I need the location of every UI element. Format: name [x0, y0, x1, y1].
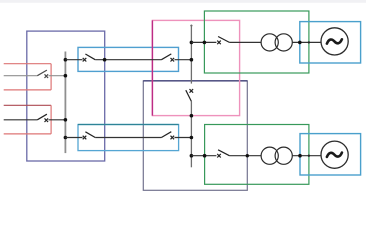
junction node at green box 1 right edge [308, 41, 310, 43]
transformer T2 [261, 147, 292, 164]
green box 1 (top transformer bay) [204, 11, 309, 73]
wire feeder 2 (black) [4, 119, 38, 121]
navy box 2 dark top edge [143, 80, 247, 82]
right busbar (upper segment) [190, 25, 192, 84]
disconnector DS8 (green bay 1) [217, 37, 229, 45]
junction node at teal box 1 edge [298, 41, 302, 45]
wire left bus to DS5 [65, 137, 82, 139]
junction node at navy box edge [103, 58, 107, 62]
wire DS2 to left bus [49, 119, 66, 121]
blue bay box 1 (top coupler bay) [78, 47, 179, 71]
teal bay box 2 (bottom coupler bay) [78, 125, 179, 151]
left busbar [64, 52, 66, 154]
wire T2 to generator G2 [292, 155, 321, 157]
junction node at green box 1 edge [203, 41, 207, 45]
junction node on left bus (coupler 1) [64, 58, 68, 62]
junction node at green box 2 right edge [308, 155, 310, 157]
junction node on right bus (bottom branch) [190, 154, 194, 158]
disconnector DS3 (blue bay 1 left) [83, 54, 96, 62]
wire DS1 to left bus [49, 75, 66, 77]
junction node at teal box 2 edge [298, 154, 302, 158]
junction node at green box 2 edge [203, 154, 207, 158]
junction node on left bus (feeder 1) [64, 74, 68, 78]
disconnector DS4 (blue bay 1 right) [161, 54, 174, 62]
junction node on right bus (coupler 1) [190, 58, 194, 62]
teal generator box 1 [300, 22, 361, 63]
generator G1 [321, 28, 348, 55]
teal generator box 2 [300, 134, 361, 175]
wire DS9 to transformer T2 [229, 155, 261, 157]
wire DS8 to transformer T1 [229, 41, 261, 43]
navy container box 1 (left voltage level) [27, 31, 105, 161]
junction node on right bus (coupler 2) [190, 136, 194, 140]
green box 2 (bottom transformer bay) [205, 125, 309, 185]
disconnector DS6 (teal bay 2 right) [161, 132, 174, 140]
right busbar (lower segment) [190, 101, 192, 167]
disconnector DS7 (vertical, on right bus) [186, 89, 193, 101]
junction node at navy box 2 right edge [246, 154, 249, 157]
disconnector DS2 (red bay 2) [37, 114, 48, 122]
junction node on right bus (pink box edge) [190, 114, 194, 118]
wire DS6 to right bus [175, 137, 192, 139]
wire right bus to DS8 [191, 41, 216, 43]
wire left bus to DS3 [65, 59, 82, 61]
teal bay box 2 dark top edge [78, 124, 179, 126]
junction node on left bus (feeder 2) [64, 118, 68, 122]
red bay box 1 [4, 64, 51, 90]
wire DS3 to DS4 [95, 59, 161, 61]
top panel divider line [0, 0, 366, 3]
pink container box (substation) [152, 20, 239, 115]
node: right bus top endpoint [190, 25, 192, 27]
junction node on left bus (coupler 2) [64, 136, 68, 140]
junction node on right bus (top branch) [190, 41, 194, 45]
magenta busbar overlay on pink left edge [151, 20, 153, 115]
navy container box 2 (middle voltage level) [143, 81, 247, 190]
wire DS4 to right bus [175, 59, 192, 61]
disconnector DS9 (green bay 2) [217, 150, 229, 158]
wire T1 to generator G1 [292, 41, 321, 43]
red bay box 2 [4, 105, 51, 134]
disconnector DS5 (teal bay 2 left) [83, 132, 96, 140]
wire feeder 1 (gray) [4, 75, 38, 77]
disconnector DS1 (red bay 1) [37, 70, 48, 78]
transformer T1 [261, 34, 292, 51]
wire DS5 to DS6 [95, 137, 161, 139]
generator G2 [321, 141, 348, 168]
wire right bus to DS9 [191, 155, 216, 157]
